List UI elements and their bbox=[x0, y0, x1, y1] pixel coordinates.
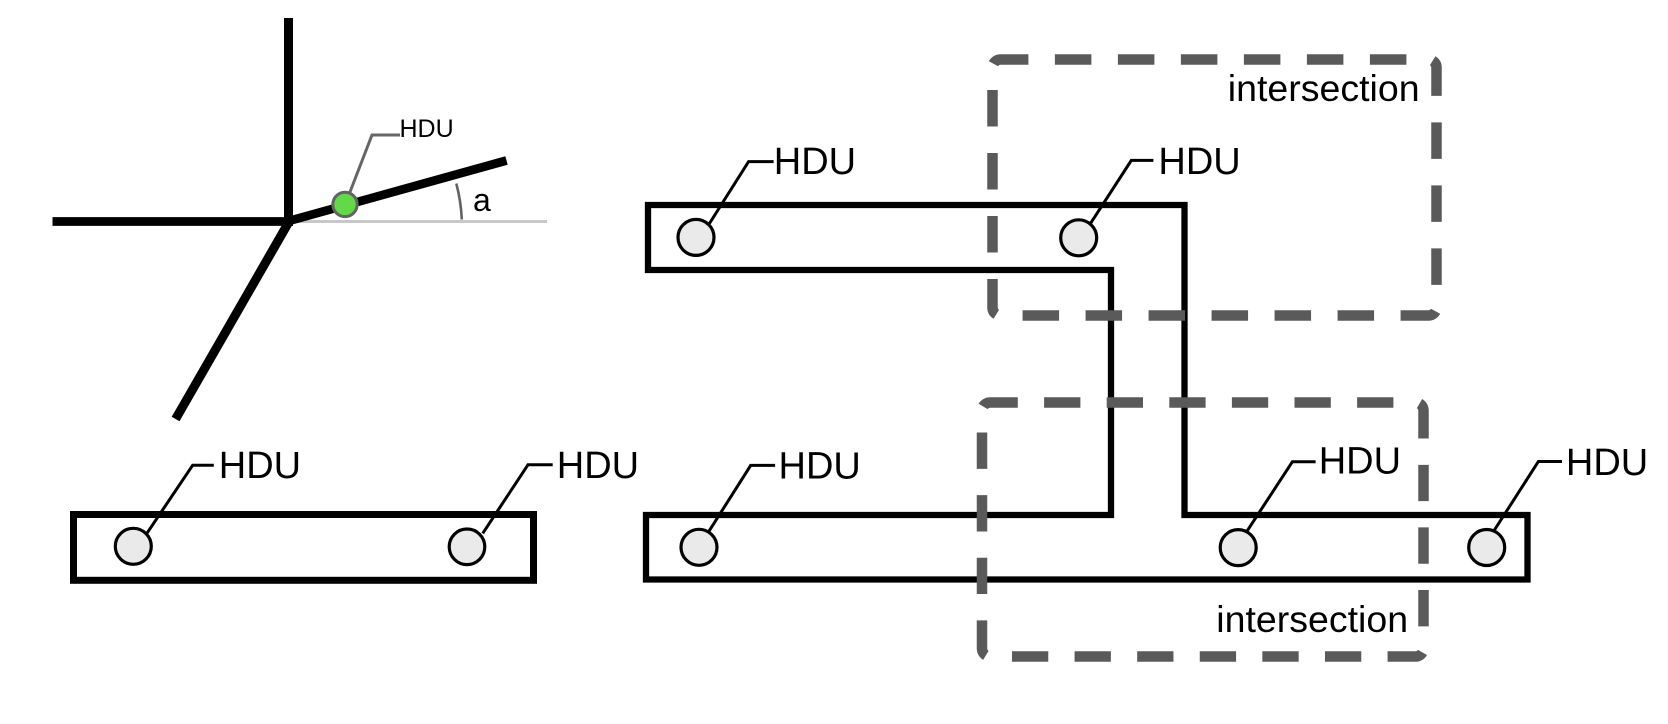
wire: star junction upper-right road branch bbox=[288, 161, 507, 222]
wire: star junction vertical road branch bbox=[284, 18, 293, 226]
wire: leader line HDU bottom-bar second bbox=[1246, 462, 1316, 533]
svg-text:a: a bbox=[473, 182, 491, 218]
svg-text:HDU: HDU bbox=[1158, 141, 1240, 183]
HDU marker top-bar second bbox=[1061, 220, 1097, 256]
svg-text:HDU: HDU bbox=[1319, 440, 1401, 482]
svg-text:HDU: HDU bbox=[779, 446, 861, 488]
intersection dashed box (bottom) bbox=[982, 403, 1424, 657]
wire: leader line HDU top-bar first bbox=[705, 162, 774, 231]
wire: star junction left horizontal road branch bbox=[53, 217, 294, 226]
wire: leader line HDU bottom-bar third bbox=[1494, 462, 1562, 532]
svg-text:HDU: HDU bbox=[557, 445, 639, 487]
HDU marker bottom-bar third bbox=[1469, 530, 1505, 566]
wire: leader line HDU left-bar second bbox=[483, 465, 553, 534]
right road network outline bbox=[646, 205, 1528, 580]
wire: leader line HDU top-bar second bbox=[1088, 160, 1153, 226]
svg-text:HDU: HDU bbox=[400, 115, 454, 143]
HDU marker bottom-bar first bbox=[681, 529, 717, 565]
wire: gray leader line to green HDU marker bbox=[350, 135, 400, 193]
HDU marker bottom-bar second bbox=[1220, 530, 1256, 566]
HDU marker left-bar second bbox=[449, 529, 485, 565]
svg-text:intersection: intersection bbox=[1228, 67, 1420, 109]
intersection dashed box (top) bbox=[993, 60, 1437, 316]
node: horizontal reference baseline (thin gray) bbox=[292, 220, 547, 223]
HDU marker top-bar first bbox=[678, 219, 714, 255]
svg-text:intersection: intersection bbox=[1216, 598, 1408, 640]
HDU marker left-bar first bbox=[115, 528, 151, 564]
svg-text:HDU: HDU bbox=[1566, 442, 1648, 484]
angle arc a bbox=[456, 184, 462, 220]
wire: leader line HDU left-bar first bbox=[147, 465, 214, 533]
svg-text:HDU: HDU bbox=[219, 445, 301, 487]
wire: star junction lower-left road branch bbox=[176, 220, 290, 419]
wire: leader line HDU bottom-bar first bbox=[707, 465, 775, 533]
HDU marker (green) on upper-right branch bbox=[333, 192, 357, 216]
svg-text:HDU: HDU bbox=[774, 141, 856, 183]
left road segment rectangle bbox=[74, 515, 534, 581]
